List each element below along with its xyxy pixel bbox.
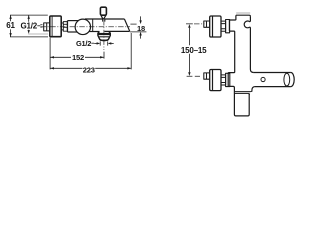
svg-text:18: 18 [137,24,145,33]
spout seam at body junction [92,19,94,31]
svg-text:G1/2: G1/2 [76,39,91,48]
cylinder bottom edge [255,86,291,88]
svg-text:61: 61 [6,21,15,30]
dim 18 top arrow [140,16,142,20]
column cap top edge [236,15,251,16]
bottom flange [226,73,230,86]
G1/2 upper arrow up [28,15,30,19]
column left profile with bosses [228,15,249,116]
outlet G1/2 right arrow [111,42,114,44]
leader dash after text [91,42,94,44]
extension line top of flange [10,14,48,16]
body left edge [67,21,69,32]
horizontal centerline of body [41,26,131,28]
spout bottom edge right part [104,30,129,32]
cylinder end cap arc [291,73,294,87]
spout seam upper [234,91,252,93]
outlet G1/2 left arrow [94,42,97,44]
temperature knob circle [75,19,90,34]
vertical centerline of diverter/outlet [103,20,105,50]
dim G1/2 upper line [28,15,30,30]
diverter stem ticks [103,19,105,21]
dim 18 bottom arrow [140,35,142,38]
dim 223 line [50,67,130,69]
G1/2 upper arrow down [28,30,30,34]
spout-tip extension line [130,33,132,69]
stub thread dashes [40,25,42,27]
top flange [226,20,230,33]
wall flange (escutcheon) [50,16,61,37]
spout top edge [85,18,124,20]
outlet inner ridge [99,36,109,38]
column right edge upper [249,16,252,22]
seam grey fill [235,92,251,93]
top escutcheon [210,16,221,37]
bottom escutcheon [210,70,221,91]
dim 152 line [50,56,103,58]
faint line under G1/2 arrow [28,33,48,35]
top stub [204,21,210,27]
wall stub [44,23,50,31]
dim 18 lower ext line [130,31,147,33]
dim 61 arrow up [9,15,11,19]
dim 61 arrow down [9,33,11,37]
top union nut [221,21,226,31]
svg-text:152: 152 [72,53,84,62]
hole in cylinder [261,77,265,81]
spout bottom edge left part [89,31,100,33]
union nut [61,22,67,32]
column right edge lower [250,27,254,73]
spout seam lower [234,93,249,95]
dim 150-15 ext dash bottom [187,75,200,77]
spout slanted end [124,19,129,31]
diverter knob [100,7,106,15]
leader dash G1/2 to stub [37,25,40,27]
outlet cup under spout [98,31,110,40]
top inlet centerline [194,23,205,25]
inlet port c-circle [244,21,250,28]
end knob inner ellipse [284,73,290,86]
spout collar right edge curving into cylinder [252,87,255,92]
body top edge [68,20,79,22]
svg-text:150–15: 150–15 [181,46,207,55]
svg-text:223: 223 [83,65,95,74]
dim 18 upper ext dash [130,23,136,25]
svg-text:G1/2: G1/2 [21,22,38,31]
wall-plane extension line [49,38,51,70]
outlet G1/2 dim ticks [100,41,108,45]
dim 61 line [10,15,12,36]
outlet center tick [103,52,105,59]
outlet dark band [98,33,110,35]
dim 150-15 ext dash top [186,23,193,25]
dim 150-15 line [188,28,190,73]
body bottom edge [68,31,78,33]
spout tube right edge [248,94,250,96]
bottom stub [204,73,210,79]
bottom union nut [221,75,226,85]
diverter knob neck [101,15,106,19]
extension line bottom of flange [10,36,48,38]
column faint cap line [236,12,250,14]
cylinder top edge [254,72,291,74]
